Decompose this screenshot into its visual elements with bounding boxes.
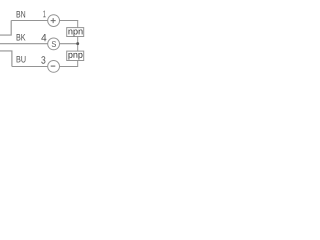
wire vertical npn to pnp <box>77 37 79 52</box>
plus sign <box>51 18 56 23</box>
wire BU left step up to edge <box>0 51 12 67</box>
label BK <box>17 34 26 40</box>
wire pnp bottom to BU wire <box>59 61 77 67</box>
wire BK horizontal right segment <box>59 43 78 45</box>
minus sign <box>51 65 56 67</box>
pin number 3 <box>41 56 45 63</box>
terminal circle pin 3 (-) <box>48 61 60 73</box>
junction dot <box>76 42 79 45</box>
wire BN top horizontal right segment <box>59 20 78 22</box>
label pnp <box>69 53 83 60</box>
pin number 4 <box>41 34 46 41</box>
wire BN right vertical drop to npn box <box>77 21 79 28</box>
label npn <box>69 29 83 36</box>
letter S <box>52 41 56 47</box>
label BU <box>17 56 26 63</box>
wire BK horizontal left segment <box>0 43 48 45</box>
load box pnp <box>67 51 84 60</box>
pin number 1 <box>43 11 45 18</box>
terminal circle pin 1 (+) <box>48 15 60 27</box>
wire BN left step down to edge <box>0 21 11 36</box>
wire BN top horizontal left segment <box>11 20 48 22</box>
load box npn <box>67 28 84 37</box>
label BN <box>17 11 26 17</box>
signal source circle S <box>48 38 60 50</box>
wire BU horizontal <box>12 66 48 68</box>
